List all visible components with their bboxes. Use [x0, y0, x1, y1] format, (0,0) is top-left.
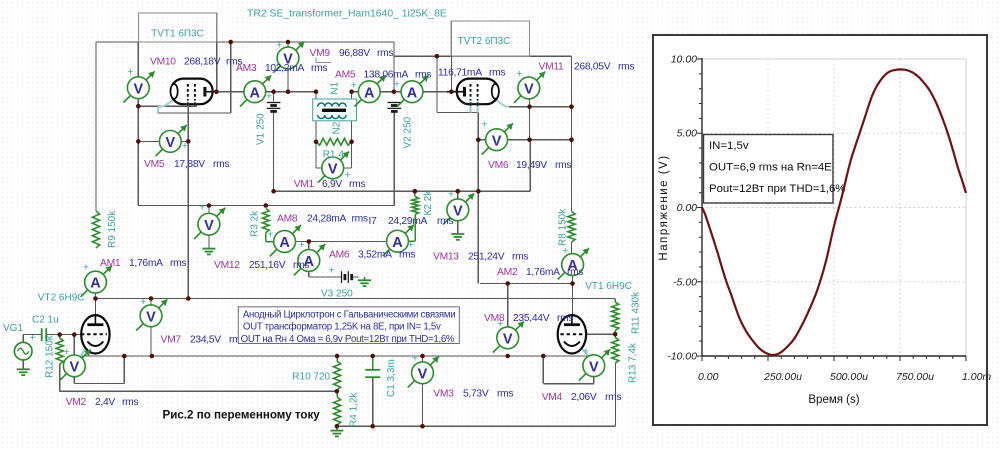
svg-text:rms: rms [557, 313, 573, 324]
svg-text:+: + [199, 202, 205, 214]
node R12 top [57, 332, 62, 337]
wire R10 top lead [336, 356, 338, 361]
node VM9 bot [286, 89, 291, 94]
wire TVT2 cathode riser x436.9 [436, 56, 438, 112]
wire VT1 anode lead [572, 284, 574, 316]
ground R4 [330, 431, 343, 437]
svg-text:138,06mA: 138,06mA [364, 70, 409, 81]
node A1 [228, 40, 233, 45]
oscilloscope chart panel [653, 35, 991, 425]
svg-text:R8 150k: R8 150k [558, 208, 569, 246]
wire measure rail y205.5 [138, 205, 394, 207]
svg-text:OUT на Rн 4 Ома = 6,9v Pout=12: OUT на Rн 4 Ома = 6,9v Pout=12Вт при THD… [241, 334, 455, 345]
svg-text:VM12: VM12 [214, 260, 240, 271]
svg-text:rms: rms [377, 48, 393, 59]
wire VG1 bottom lead [22, 360, 24, 369]
wire R8 to AM2 [571, 242, 573, 254]
wire VM3 bottom lead [422, 384, 424, 427]
wire VM1 left riser [315, 142, 317, 168]
annotation box [238, 307, 459, 344]
wire VM7 top lead [150, 299, 152, 305]
svg-text:+: + [412, 353, 418, 365]
wire I7 right lead [408, 240, 415, 242]
meter VM8 [493, 318, 524, 353]
svg-text:+: + [299, 239, 305, 251]
svg-text:+: + [583, 346, 589, 358]
meter I7 [383, 225, 414, 256]
meter AM5 [350, 75, 385, 106]
wire B+ wire y191 [274, 190, 531, 192]
wire R12 bottom lead [59, 364, 61, 391]
wire cathode riser x230.7 [230, 42, 232, 113]
wire N2 right pin down [351, 121, 353, 142]
node R1 right [349, 140, 354, 145]
wire V3 to ground [352, 276, 359, 278]
capacitor C1 3.3m [365, 370, 380, 377]
svg-text:V: V [69, 360, 79, 376]
resistor R8 150k [568, 212, 575, 243]
ground VG1 [17, 369, 30, 375]
svg-text:V: V [589, 359, 599, 375]
svg-text:A: A [90, 276, 101, 292]
svg-text:R13 7,4k: R13 7,4k [628, 342, 639, 383]
wire VG1 top lead [22, 335, 24, 343]
legend box [704, 135, 834, 204]
wire VM12 top lead [208, 206, 210, 214]
wire R11-R13 link [614, 331, 616, 338]
wire R10-R4 link [336, 390, 338, 397]
wire AM2 bottom lead [572, 276, 574, 284]
resistor R9 150k [92, 211, 99, 248]
svg-text:VG1: VG1 [3, 323, 23, 334]
meter VM9 [273, 40, 304, 73]
svg-text:rms: rms [497, 389, 513, 400]
node B+ left [271, 189, 276, 194]
wire VM6 left lead [478, 139, 485, 141]
wire VM9 bottom lead [287, 69, 289, 92]
svg-text:19,49V: 19,49V [516, 160, 547, 171]
node VM7 bot [150, 354, 155, 359]
svg-text:VM3: VM3 [433, 389, 454, 400]
wire anode wire y283.5 [480, 283, 573, 285]
resistor R13 7.4k [612, 337, 619, 363]
TVT2 label box [451, 21, 529, 56]
VM9 pointer [316, 58, 331, 63]
svg-text:VT2 6H9C: VT2 6H9C [38, 293, 85, 304]
svg-text:AM5: AM5 [335, 70, 356, 81]
wire feedback rail y391.3 [60, 390, 337, 392]
node TVT2 rail tap [435, 54, 440, 59]
node VT2 anode [93, 296, 98, 301]
svg-text:К2 2k: К2 2k [423, 190, 434, 216]
svg-text:V: V [165, 135, 175, 151]
meter AM3 [240, 75, 272, 106]
svg-text:+: + [30, 333, 36, 344]
node link [527, 137, 532, 142]
svg-text:268,05V: 268,05V [574, 62, 611, 73]
waveform V(out) sine [702, 69, 966, 355]
svg-text:VM5: VM5 [144, 159, 165, 170]
node pins TVT1 [136, 104, 141, 109]
svg-text:rms: rms [352, 214, 368, 225]
wire R13 bottom lead [615, 363, 617, 426]
wire VM9 top lead [287, 42, 289, 47]
resistor R1 4 [316, 138, 352, 145]
svg-text:Рис.2 по переменному току: Рис.2 по переменному току [163, 409, 321, 422]
svg-text:+: + [267, 229, 273, 241]
node VM5 left [136, 139, 141, 144]
node VM13 top [456, 189, 461, 194]
svg-text:+: + [394, 79, 400, 91]
svg-text:24,28mA: 24,28mA [307, 214, 347, 225]
wire R3 to AM8 [266, 241, 274, 243]
wire AM5 to AM-I8 [380, 91, 401, 93]
svg-text:V: V [418, 366, 428, 382]
wire VM7 bottom lead [150, 327, 152, 356]
svg-text:500.00u: 500.00u [830, 371, 868, 383]
node VM2 top [72, 332, 77, 337]
meter VM7 [136, 296, 167, 331]
wire R4 ground stem [336, 426, 338, 430]
wire VT2 anode lead [95, 299, 97, 316]
resistor K2 2k [412, 197, 419, 215]
svg-text:17,88V: 17,88V [174, 159, 205, 170]
svg-text:VM4: VM4 [542, 392, 563, 403]
svg-text:IN=1,5v: IN=1,5v [709, 140, 749, 152]
svg-text:AM8: AM8 [277, 214, 298, 225]
transformer TR2 N1/N2 [313, 99, 357, 121]
svg-text:rms: rms [437, 216, 453, 227]
wire TVT2 rail y56 [394, 55, 572, 57]
svg-text:2,4V: 2,4V [95, 397, 115, 408]
battery V1 250 [267, 103, 281, 112]
wire V1 top lead [273, 92, 275, 102]
wire V2 bottom lead [393, 113, 395, 206]
wire x530.3 riser [529, 140, 531, 192]
wire TVT2 cathode wire y106.7 [508, 106, 572, 108]
node TVT2 plate [449, 89, 454, 94]
meter AM1 [81, 262, 112, 297]
node x188 bottom [186, 296, 191, 301]
node R4 bot [335, 424, 340, 429]
svg-text:I7: I7 [369, 216, 378, 227]
svg-text:24,29mA: 24,29mA [388, 216, 428, 227]
svg-text:A: A [407, 85, 418, 101]
wire VM4 bottom lead [593, 377, 595, 384]
wire AM8 to I7 wire y241.5 [295, 241, 386, 243]
TVT2 cathode curve [496, 99, 509, 107]
wire TVT1 pins wire y106.2 [138, 105, 197, 107]
wire TVT2 plate riser x451.4 [450, 56, 452, 91]
wire V2 top riser x394 [393, 42, 395, 92]
wire AM6 top lead [308, 242, 310, 250]
wire VM1 right riser [351, 142, 353, 168]
svg-text:rms: rms [213, 159, 229, 170]
meter VM11 [514, 68, 545, 103]
svg-text:TVT1 6П3С: TVT1 6П3С [151, 29, 204, 40]
wire AM6 bottom lead [308, 271, 310, 277]
svg-text:TVT2 6П3С: TVT2 6П3С [458, 36, 511, 47]
svg-text:AM2: AM2 [497, 267, 518, 278]
svg-text:rms: rms [399, 250, 415, 261]
wire VM2 loop riser [123, 356, 125, 384]
svg-text:A: A [364, 85, 375, 101]
capacitor C2 1u [42, 328, 47, 341]
meter AM8 [267, 225, 301, 256]
node VM11 bot [527, 104, 532, 109]
node VM7 top [149, 296, 154, 301]
svg-text:V: V [503, 331, 513, 347]
wire V3 ground stem [358, 276, 360, 279]
wire VM13 bottom lead [457, 221, 459, 234]
wire TVT2 pins wire y112.5 [437, 112, 478, 114]
svg-text:R9 150k: R9 150k [107, 210, 118, 248]
svg-text:+: + [350, 79, 356, 91]
svg-text:VM2: VM2 [66, 397, 87, 408]
svg-text:OUT трансформатор 1,25K на 8E,: OUT трансформатор 1,25K на 8E, при IN= 1… [243, 322, 441, 333]
wire VM2 top lead [73, 335, 75, 355]
source VG1 [14, 342, 32, 360]
axes [701, 58, 703, 356]
wire V3 ground stem2 [364, 277, 366, 280]
TVT1 label box [138, 13, 216, 42]
meter VM12 [194, 202, 225, 239]
meter VM10 [124, 66, 155, 103]
svg-text:R12 150k: R12 150k [45, 334, 56, 378]
resistor R10 720 [334, 361, 341, 390]
wire V1 bottom lead [273, 113, 275, 192]
grid [702, 58, 966, 60]
node V1 top [271, 89, 276, 94]
svg-text:5,73V: 5,73V [463, 389, 489, 400]
node R1 left [314, 140, 319, 145]
svg-text:V3 250: V3 250 [321, 289, 353, 300]
node VM2 loop [122, 354, 127, 359]
svg-text:+: + [481, 119, 487, 131]
ground VM12 [202, 249, 215, 255]
meter AM2 [558, 245, 589, 279]
svg-text:rms: rms [415, 70, 431, 81]
node N1 right [349, 89, 354, 94]
VT2 cathode curve [81, 348, 88, 357]
wire R3 bottom lead [265, 233, 267, 242]
svg-text:+: + [516, 68, 522, 80]
tube TVT2 6P3S [447, 79, 499, 113]
svg-text:rms: rms [489, 68, 505, 79]
svg-text:250.00u: 250.00u [763, 371, 802, 383]
svg-text:VM1: VM1 [294, 179, 315, 190]
svg-text:5.00: 5.00 [677, 128, 698, 140]
node V2 top [392, 89, 397, 94]
svg-text:-10.00: -10.00 [667, 351, 697, 363]
svg-text:-5.00: -5.00 [673, 276, 697, 288]
wire x138 column [137, 99, 139, 206]
svg-text:+: + [266, 90, 272, 102]
svg-text:3,52mA: 3,52mA [358, 250, 392, 261]
ground VM13 [451, 234, 464, 240]
meter AM7 [394, 75, 429, 106]
svg-text:R1 4: R1 4 [323, 150, 345, 161]
svg-text:Pout=12Вт при THD=1,6%: Pout=12Вт при THD=1,6% [709, 183, 845, 195]
wire VM5 left lead [138, 140, 159, 142]
wire N1 left pin [315, 92, 317, 99]
node A2 [286, 40, 291, 45]
svg-text:2,06V: 2,06V [571, 392, 597, 403]
svg-text:234,5V: 234,5V [190, 335, 221, 346]
wire x188 column [187, 106, 189, 298]
node N1 left [314, 89, 319, 94]
meter VM5 [156, 125, 188, 156]
node R10 top [335, 354, 340, 359]
meter VM1 [318, 152, 351, 183]
svg-text:rms: rms [293, 260, 309, 271]
svg-text:V: V [133, 81, 143, 97]
node AM6 top [307, 239, 312, 244]
node VM6 left [476, 137, 481, 142]
wire VM1 left lead [316, 167, 322, 169]
wire VT1 grid wire [586, 333, 615, 335]
node VM8 top [505, 281, 510, 286]
meter VM2 [60, 346, 91, 381]
svg-text:VT1 6H9C: VT1 6H9C [585, 281, 632, 292]
svg-text:V: V [492, 133, 502, 149]
svg-text:C1 3,3m: C1 3,3m [386, 359, 397, 397]
svg-text:1,76mA: 1,76mA [526, 267, 560, 278]
wire top rail y42 [96, 41, 394, 43]
wire VM13 top lead [457, 191, 459, 199]
svg-text:0.00: 0.00 [677, 202, 698, 214]
svg-text:+: + [83, 262, 89, 274]
node VM4 loop [541, 354, 546, 359]
wire VM12 bottom lead [208, 235, 210, 248]
tube VT1 6N9S [558, 315, 587, 353]
svg-text:N2: N2 [332, 121, 343, 134]
svg-text:V2 250: V2 250 [403, 116, 414, 148]
svg-text:rms: rms [349, 179, 365, 190]
svg-text:V: V [453, 203, 463, 219]
svg-text:rms: rms [512, 252, 528, 263]
node C1 top [370, 354, 375, 359]
svg-text:235,44V: 235,44V [513, 313, 550, 324]
node VM8 bot [505, 354, 510, 359]
wire TVT1 cathode wire y113 [158, 112, 231, 114]
node C1 bot [370, 424, 375, 429]
wire N1 right pin to AM5 [352, 91, 359, 93]
svg-text:rms: rms [605, 392, 621, 403]
meter VM3 [408, 353, 439, 388]
svg-text:VM8: VM8 [484, 313, 505, 324]
wire ground rail y426.2 [337, 425, 616, 427]
node VM12 top [207, 203, 212, 208]
svg-text:+: + [448, 188, 454, 200]
svg-text:OUT=6,9 rms на Rn=4E: OUT=6,9 rms на Rn=4E [709, 162, 832, 174]
svg-text:750.00u: 750.00u [896, 371, 934, 383]
svg-text:+: + [64, 346, 70, 358]
svg-text:rms: rms [122, 397, 138, 408]
wire VM8 top lead [507, 284, 509, 327]
svg-text:C2 1u: C2 1u [32, 315, 59, 326]
svg-text:rms: rms [567, 267, 583, 278]
VT1 cathode curve [580, 348, 588, 356]
svg-text:A: A [279, 235, 290, 251]
svg-text:268,18V: 268,18V [184, 57, 221, 68]
wire K2 top lead [414, 191, 416, 196]
wire R12 top lead [59, 335, 61, 338]
wire VM4 loop riser [542, 356, 544, 384]
node K2 top [413, 189, 418, 194]
svg-text:R4 1,2k: R4 1,2k [349, 392, 360, 427]
svg-text:rms: rms [555, 160, 571, 171]
tube TVT1 6P3S [171, 79, 217, 107]
svg-text:R11 430k: R11 430k [631, 291, 642, 334]
wire C2 to grid [46, 334, 84, 336]
node R11-R13 [613, 332, 618, 337]
svg-text:V: V [524, 82, 534, 98]
svg-text:R10 720: R10 720 [292, 372, 330, 383]
svg-text:A: A [250, 85, 261, 101]
wire anode riser x216.7 [216, 42, 218, 92]
svg-text:AM6: AM6 [329, 250, 350, 261]
tube VT2 6N9S [81, 315, 110, 353]
node cath x571 [569, 104, 574, 109]
node VM5 right [186, 139, 191, 144]
wire AM6 to V3 [309, 276, 342, 278]
wire VM4 loop bottom [543, 383, 594, 385]
meter VM4 [579, 346, 610, 381]
svg-text:TR2 SE_transformer_Ham1640_ 1i: TR2 SE_transformer_Ham1640_ 1i25K_8E [247, 9, 447, 20]
wire N2 left pin down [315, 121, 317, 142]
node TVT1 anode [214, 89, 219, 94]
wire cathode rail y356 [81, 355, 594, 357]
wire C1 bottom lead [372, 378, 374, 427]
svg-text:102,2mA: 102,2mA [265, 63, 305, 74]
svg-text:V: V [328, 162, 338, 178]
svg-text:Время (s): Время (s) [808, 394, 859, 406]
svg-text:N1: N1 [330, 81, 341, 94]
battery V3 250 [342, 271, 352, 283]
wire VM10 top lead [137, 42, 139, 77]
resistor R11 430k [612, 302, 619, 331]
wire AM1 bottom lead [95, 293, 97, 299]
wire VM3 top lead [422, 356, 424, 362]
wire VG1 to C2 [23, 334, 41, 336]
svg-text:VM9: VM9 [310, 48, 331, 59]
meter VM13 [443, 188, 474, 224]
ground V3 [358, 280, 371, 286]
svg-text:+: + [140, 296, 146, 308]
svg-text:6,9V: 6,9V [322, 179, 342, 190]
svg-text:V: V [204, 218, 214, 234]
svg-text:VM7: VM7 [161, 335, 182, 346]
node VM6 right [569, 137, 574, 142]
svg-text:VM13: VM13 [433, 252, 459, 263]
svg-text:rms: rms [170, 258, 186, 269]
wire VM11 bottom lead [529, 88, 531, 107]
svg-text:251,24V: 251,24V [468, 252, 505, 263]
node VM3 top [420, 354, 425, 359]
wire TVT1 anode to AM3 [216, 91, 244, 93]
wire AM to TVT2 plate [423, 91, 452, 93]
wire VM1 right lead [344, 167, 352, 169]
wire VM2 bottom lead [73, 377, 75, 384]
svg-text:R3 2k: R3 2k [250, 210, 261, 237]
svg-text:96,88V: 96,88V [339, 48, 370, 59]
meter AM6 [294, 239, 325, 275]
svg-text:rms: rms [311, 63, 327, 74]
wire K2 bottom lead [414, 215, 416, 242]
wire C1 top lead [372, 356, 374, 369]
battery V2 250 [388, 103, 402, 112]
